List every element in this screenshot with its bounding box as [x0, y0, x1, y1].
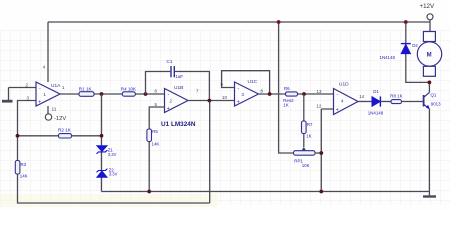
svg-text:-12V: -12V — [54, 116, 66, 122]
svg-text:U1D: U1D — [339, 82, 349, 88]
node junction rail/pot drop — [277, 20, 281, 24]
svg-text:10: 10 — [222, 95, 227, 100]
wire U1C output to R6 to U1D — [259, 93, 334, 95]
svg-text:R5: R5 — [152, 129, 158, 134]
wire ground to pin2 — [9, 87, 37, 89]
wire pin3 feedback vertical — [18, 101, 210, 204]
resistor R5 — [147, 129, 152, 142]
svg-text:14K: 14K — [20, 174, 28, 179]
wire pin 11 — [47, 106, 49, 114]
wire U1B output to U1C — [188, 100, 235, 102]
svg-text:U1 LM324N: U1 LM324N — [161, 121, 196, 128]
svg-text:D1: D1 — [373, 89, 379, 94]
svg-text:12: 12 — [317, 104, 322, 109]
svg-text:1N4148: 1N4148 — [368, 111, 384, 116]
wire R7 — [303, 94, 305, 147]
resistor R4 — [122, 92, 135, 96]
node junction pin12 column/rail — [319, 190, 323, 194]
svg-text:Q1: Q1 — [431, 92, 437, 97]
svg-text:+12V: +12V — [420, 3, 435, 10]
svg-text:10K: 10K — [302, 163, 310, 168]
resistor R3 — [15, 161, 20, 175]
svg-text:R1 1K: R1 1K — [79, 86, 93, 91]
node junction R2 right — [100, 134, 104, 138]
wire ground rail — [102, 191, 430, 193]
svg-text:14: 14 — [359, 94, 364, 99]
diode D1 1N4148 — [372, 97, 380, 106]
svg-text:R6: R6 — [284, 86, 290, 91]
wire emitter to ground rail — [428, 109, 430, 192]
wire pin5 to R5 — [149, 107, 164, 192]
svg-text:C1: C1 — [167, 59, 173, 64]
op-amp U1C — [235, 82, 259, 106]
svg-text:13: 13 — [317, 89, 322, 94]
svg-text:U1A: U1A — [51, 83, 61, 89]
+12V terminal — [427, 14, 433, 20]
resistor R6 — [286, 92, 298, 96]
node junction rail/freewheel — [404, 20, 408, 24]
wire U1C feedback loop — [222, 71, 270, 94]
wire zener column — [101, 94, 103, 192]
svg-text:3.3V: 3.3V — [108, 152, 117, 157]
resistor R1 — [79, 92, 94, 97]
node junction motor bottom / collector — [428, 81, 432, 85]
svg-text:+: + — [38, 99, 41, 105]
diode D2 1N4148 freewheel — [401, 44, 410, 53]
resistor R8 — [391, 100, 402, 104]
wire D1 to R8 — [380, 101, 391, 103]
wire top +12V rail — [48, 21, 430, 23]
node junction R6 right / R7 — [302, 92, 306, 96]
transistor Q1 — [423, 95, 425, 107]
wire freewheel diode branch — [406, 22, 430, 82]
potentiometer RP1 — [302, 147, 306, 150]
wire R8 to Q1 base — [402, 101, 424, 103]
node junction R1/R4 — [100, 92, 104, 96]
ground (U1A pin2) — [8, 88, 10, 101]
wire U1D output to D1 — [358, 101, 372, 103]
svg-text:-: - — [168, 92, 170, 98]
svg-text:R8 1K: R8 1K — [390, 94, 402, 99]
wire +12V terminal to motor — [429, 20, 431, 32]
svg-text:U1B: U1B — [174, 85, 183, 91]
wire pot right — [315, 152, 321, 154]
op-amp U1D — [334, 89, 359, 115]
svg-text:R2 1K: R2 1K — [58, 128, 72, 133]
node junction R2 left — [16, 134, 20, 138]
svg-text:-: - — [39, 86, 41, 92]
resistor R7 — [302, 121, 307, 134]
wire R2 rail — [18, 135, 102, 137]
zener Z1 — [97, 146, 107, 152]
svg-text:1uF: 1uF — [175, 74, 183, 79]
svg-text:1K: 1K — [306, 133, 311, 138]
node junction U1C out — [268, 92, 272, 96]
resistor R2 — [59, 134, 72, 138]
capacitor C1 — [171, 66, 174, 77]
svg-text:-: - — [238, 86, 240, 92]
svg-text:9013: 9013 — [431, 102, 441, 107]
svg-text:D2: D2 — [412, 43, 418, 48]
svg-text:+: + — [167, 106, 170, 112]
svg-text:+: + — [336, 107, 339, 113]
wire collector to motor junction — [428, 82, 430, 92]
svg-text:R3: R3 — [21, 162, 27, 167]
node junction U1B out / C1 / feedback — [208, 99, 212, 103]
node junction R4/C1 — [144, 92, 148, 96]
ground symbol — [428, 192, 430, 196]
svg-text:+: + — [237, 99, 240, 105]
node junction pot right — [319, 151, 323, 155]
op-amp U1A — [36, 82, 60, 106]
svg-text:11: 11 — [52, 107, 57, 113]
svg-text:14K: 14K — [152, 142, 160, 147]
wire main signal line — [60, 93, 165, 95]
op-amp U1B — [165, 89, 189, 113]
svg-text:M: M — [427, 52, 432, 58]
svg-text:-: - — [337, 92, 339, 98]
svg-text:3.3V: 3.3V — [109, 172, 118, 177]
wire pin12 vertical — [321, 109, 333, 192]
svg-text:R4 10K: R4 10K — [121, 86, 137, 91]
node junction R5/rail — [147, 190, 151, 194]
zener Z2 — [97, 171, 107, 177]
svg-text:1K: 1K — [283, 102, 288, 107]
wire +12V drop to pot — [279, 22, 294, 153]
motor M — [423, 32, 435, 42]
svg-text:R7: R7 — [307, 122, 313, 127]
svg-text:U1C: U1C — [248, 79, 258, 85]
wire U1A pin4 to rail — [47, 22, 49, 82]
-12V terminal — [45, 114, 51, 120]
svg-text:1N4148: 1N4148 — [380, 55, 396, 60]
wire C1 feedback loop — [146, 72, 210, 101]
